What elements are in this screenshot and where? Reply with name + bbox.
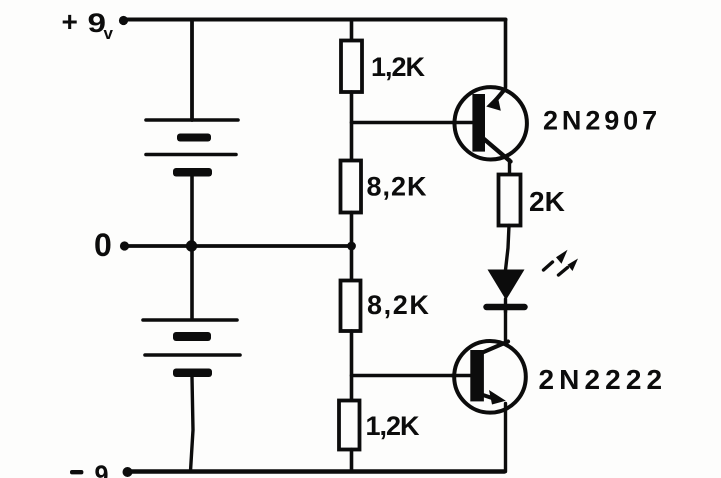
battery B1 (top 9V battery): [146, 120, 238, 177]
wire top +9V rail: [123, 18, 506, 22]
wire battery B1 to node 0 and battery B2: [190, 176, 194, 318]
resistor R5 2K: [499, 175, 521, 226]
svg-text:+: +: [62, 6, 78, 37]
resistor R4 1,2K: [339, 401, 360, 450]
LED light ray arrow 1: [544, 250, 568, 270]
transistor Q2 2N2222 (NPN): [452, 341, 526, 413]
junction battery midpoint at node 0: [186, 240, 197, 251]
svg-text:8,2K: 8,2K: [367, 290, 430, 320]
wire chain top segment: [350, 20, 354, 43]
label -9V: [70, 460, 109, 478]
svg-text:2K: 2K: [529, 186, 565, 217]
wire Q1 collector to +9V rail (right vertical): [504, 20, 508, 88]
wire Q1 collector to R5: [508, 160, 511, 176]
junction divider at node 0: [347, 242, 356, 251]
resistor R1 1,2K: [341, 41, 362, 93]
resistor R2 8,2K: [341, 161, 362, 213]
transistor Q1 2N2907 (PNP): [453, 87, 527, 161]
wire R5 to LED anode: [506, 226, 510, 271]
wire Q2 emitter to -9V rail: [504, 404, 507, 472]
svg-text:2N2907: 2N2907: [543, 106, 661, 136]
wire Q2 base: [352, 374, 456, 378]
node 0 terminal dot: [120, 241, 129, 250]
wire node 0 horizontal: [124, 244, 352, 248]
LED D1: [487, 270, 525, 313]
svg-text:1,2K: 1,2K: [371, 52, 426, 82]
svg-text:9: 9: [95, 460, 109, 478]
svg-text:8,2K: 8,2K: [367, 172, 428, 202]
wire chain R1 to R2: [350, 92, 354, 161]
wire chain R3 to R4: [350, 331, 354, 401]
wire chain R4 to -9V rail: [350, 450, 354, 472]
wire +9V rail to battery B1: [190, 20, 194, 120]
wire bottom -9V rail: [126, 469, 505, 473]
wire LED cathode to Q2 collector: [504, 309, 507, 341]
node +9V terminal dot: [119, 16, 128, 25]
battery B2 (bottom 9V battery): [143, 320, 240, 377]
svg-text:1,2K: 1,2K: [366, 411, 421, 441]
LED light ray arrow 2: [559, 259, 579, 276]
label +9V: [62, 6, 114, 43]
svg-text:2N2222: 2N2222: [539, 364, 668, 395]
svg-text:0: 0: [94, 227, 112, 263]
wire battery B2 to -9V rail: [191, 377, 194, 471]
resistor R3 8,2K: [341, 281, 361, 332]
svg-text:v: v: [104, 24, 114, 43]
wire chain R2 to R3: [350, 213, 354, 282]
wire Q1 base: [352, 121, 456, 125]
node -9V terminal dot: [123, 467, 133, 477]
